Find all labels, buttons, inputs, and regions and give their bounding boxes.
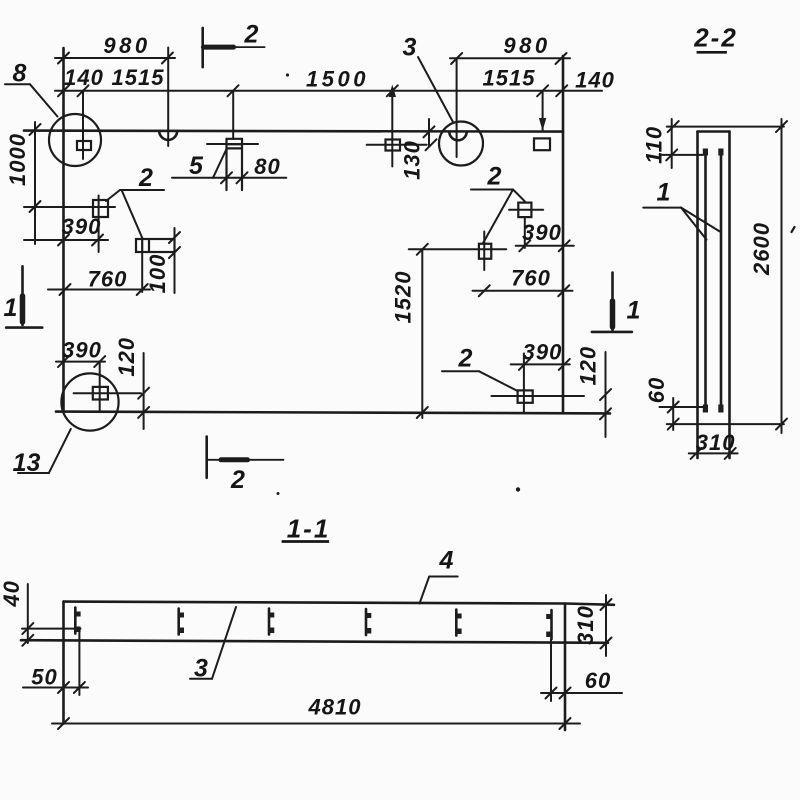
svg-text:980: 980 — [503, 33, 550, 58]
dimension 1000 — [30, 122, 41, 244]
extension x99.7 through S2 — [99, 362, 101, 412]
svg-text:2: 2 — [458, 345, 473, 373]
extension line x168 to lifting loop — [167, 48, 169, 147]
section 1-1 slab bottom edge — [21, 640, 608, 643]
svg-text:760: 760 — [511, 266, 551, 291]
svg-text:2: 2 — [138, 164, 153, 192]
extension line x392 with up arrow — [389, 85, 396, 167]
dimension 130 — [424, 119, 437, 150]
svg-text:390: 390 — [523, 340, 563, 365]
rebar mark 1 — [75, 608, 80, 634]
svg-text:1500: 1500 — [306, 67, 369, 92]
svg-text:3: 3 — [194, 655, 208, 683]
section marker 1 right — [592, 273, 632, 332]
svg-text:140: 140 — [64, 65, 104, 90]
section 2-2 top dimension line — [667, 121, 787, 132]
svg-text:120: 120 — [114, 337, 139, 377]
detail circle 3 — [439, 122, 483, 166]
svg-text:1: 1 — [627, 297, 641, 325]
section 1-1 right edge — [564, 604, 567, 731]
svg-text:60: 60 — [585, 668, 611, 693]
stray dot 4 — [792, 227, 795, 232]
dimension 80 line — [172, 172, 286, 183]
svg-text:390: 390 — [62, 338, 102, 363]
leader for label 8 — [5, 84, 58, 116]
leader 4 section 1-1 — [420, 577, 458, 604]
svg-text:310: 310 — [696, 430, 736, 455]
dimension 50 — [23, 628, 88, 696]
svg-text:760: 760 — [88, 267, 128, 292]
svg-text:4810: 4810 — [308, 695, 362, 720]
leader for label 5 — [213, 149, 227, 178]
anchor item H1 horizontal — [136, 239, 175, 292]
extension line x456 into circle 3 — [456, 58, 458, 157]
svg-text:120: 120 — [576, 346, 601, 386]
dimension 980 right — [450, 53, 570, 64]
svg-text:2-2: 2-2 — [693, 23, 738, 53]
svg-text:130: 130 — [400, 140, 425, 180]
svg-text:1515: 1515 — [112, 65, 165, 90]
svg-text:390: 390 — [62, 214, 102, 239]
stray dot 1 — [286, 73, 289, 76]
dimension 120 bottom right — [600, 352, 611, 437]
title 2-2 underline — [697, 51, 727, 54]
svg-text:390: 390 — [522, 220, 562, 245]
svg-text:80: 80 — [254, 154, 280, 179]
section 2-2 slab outline — [698, 132, 730, 459]
dimension 390 right — [516, 240, 574, 251]
dimension 310 section 1-1 — [601, 595, 612, 656]
section 2-2 reinforcement bars — [703, 149, 724, 413]
svg-text:1: 1 — [4, 294, 18, 322]
section marker 1 left — [6, 266, 42, 327]
dimension 760 right — [473, 285, 573, 296]
title 1-1 underline — [282, 540, 330, 543]
leader for label 13 — [18, 429, 71, 473]
panel bottom edge — [56, 412, 610, 414]
panel right edge — [562, 56, 565, 413]
svg-text:50: 50 — [31, 665, 57, 690]
svg-text:1520: 1520 — [391, 271, 416, 324]
extension line x233 to anchor 5 — [232, 91, 234, 139]
svg-text:5: 5 — [189, 152, 204, 180]
leader 2 upper left — [106, 190, 164, 239]
dimension 120 lower left — [138, 353, 149, 429]
panel left edge — [62, 48, 65, 412]
anchor square S6 — [409, 232, 507, 271]
svg-text:140: 140 — [575, 68, 615, 93]
panel top edge — [24, 131, 563, 132]
svg-text:1515: 1515 — [483, 66, 536, 91]
rebar mark 3 — [269, 609, 274, 635]
svg-text:1: 1 — [657, 179, 671, 207]
anchor square S1 — [24, 196, 115, 253]
svg-text:1000: 1000 — [5, 133, 30, 186]
anchor square S7 — [491, 353, 584, 412]
anchor square S5 — [509, 203, 543, 248]
dimension 1520 — [417, 244, 428, 418]
svg-text:2600: 2600 — [749, 222, 774, 276]
svg-text:2: 2 — [487, 163, 502, 191]
dimension 980 left — [55, 53, 175, 64]
svg-text:60: 60 — [644, 377, 669, 403]
svg-text:3: 3 — [403, 34, 417, 62]
svg-text:8: 8 — [13, 60, 27, 88]
section 1-1 slab top edge — [64, 602, 615, 605]
dimension 60 section 1-1 — [541, 639, 622, 701]
leader 1 section 2-2 — [643, 208, 719, 240]
svg-text:100: 100 — [145, 254, 170, 294]
half circle loop in circle 3 — [449, 132, 466, 141]
lifting loop half circle — [159, 131, 177, 140]
anchor square S2 — [74, 387, 141, 400]
dimension 390 bottom right — [511, 359, 570, 370]
leader 3 section 1-1 — [190, 607, 236, 679]
anchor square S3 top middle — [367, 140, 427, 151]
anchor item 5 — [207, 139, 258, 190]
section 1-1 left edge — [62, 602, 65, 724]
dimension 40 — [22, 584, 81, 646]
svg-text:110: 110 — [642, 126, 667, 164]
detail circle 8 — [49, 114, 101, 166]
svg-text:40: 40 — [0, 580, 24, 607]
svg-text:13: 13 — [13, 449, 41, 477]
svg-text:2: 2 — [244, 21, 259, 49]
embedded plate in circle 8 — [77, 141, 91, 150]
dimension 60 section 2-2 — [660, 398, 704, 430]
rebar mark 6 — [546, 610, 551, 639]
extension line x542 with down arrow — [539, 91, 546, 131]
dimension 390 upper left — [24, 235, 108, 246]
rebar mark 5 — [456, 610, 461, 636]
section marker 2 top — [203, 28, 265, 67]
section marker 2 bottom — [207, 437, 284, 478]
leader 2 bottom right — [442, 371, 518, 391]
rebar mark 2 — [179, 609, 184, 635]
svg-text:310: 310 — [573, 605, 598, 645]
leader 2 right — [471, 190, 525, 244]
dimension 110 — [660, 119, 704, 168]
dimension 390 lower left — [56, 356, 105, 367]
section 2-2 bottom extension line — [667, 423, 784, 425]
rebar mark 4 — [366, 609, 371, 635]
svg-text:2: 2 — [230, 466, 245, 494]
svg-text:1-1: 1-1 — [287, 514, 331, 544]
leader for label 3 — [418, 57, 453, 122]
anchor square S4 top right — [534, 138, 550, 150]
svg-text:4: 4 — [439, 547, 454, 575]
dimension 760 left — [48, 284, 150, 295]
detail circle 13 — [61, 373, 118, 430]
extension line x83 to plate in circle 8 — [82, 91, 84, 159]
dimension 310 section 2-2 — [689, 448, 738, 459]
dimension 4810 — [52, 718, 580, 729]
stray dot 3 — [277, 492, 280, 495]
stray dot 2 — [516, 487, 520, 491]
dimension 2600 — [776, 119, 787, 433]
svg-text:980: 980 — [103, 33, 150, 58]
dimension row 140 1515 1500 1515 140 — [55, 85, 602, 96]
dimension 100 left — [169, 228, 180, 293]
